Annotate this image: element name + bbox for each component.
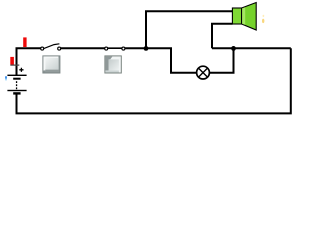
battery B1: plate 4 short thick (-) — [13, 92, 20, 94]
lamp L1 cross — [199, 68, 208, 77]
switch S1 (open) lever — [44, 44, 60, 49]
push button 2 (pressed, for S2) — [104, 55, 121, 73]
switch S2 left contact — [105, 47, 108, 50]
switch S1 left contact — [41, 47, 44, 50]
switch S1 right contact — [58, 47, 61, 50]
wire: lamp output right and up to junction B — [210, 48, 234, 72]
speaker horn highlight — [242, 7, 245, 25]
wire: speaker bottom terminal left and down to node row — [212, 24, 233, 49]
red marker 1 (on wire near corner) — [23, 37, 26, 47]
battery B1: plate 2 short thick (-) — [13, 78, 20, 80]
battery B1: plate 1 long (+) — [7, 75, 26, 76]
battery plus sign — [19, 68, 23, 72]
red marker 2 (beside battery) — [10, 57, 14, 65]
wire: junction A up and top rail to speaker top terminal — [146, 11, 233, 48]
wire: from x212 through junction B to right rail — [212, 47, 291, 49]
speaker LS1 horn cone — [242, 3, 257, 31]
battery B1: plate 3 long (+) — [7, 90, 26, 91]
wire: right rail down, bottom rail, battery negative return — [17, 48, 291, 113]
lamp L1 circle — [197, 66, 210, 79]
sound note mark — [263, 15, 265, 17]
wire: from switch S2 to junction A and corner down to lamp row — [125, 48, 196, 72]
dark tick under red marker 2 — [10, 65, 19, 66]
blue droplet mark — [5, 76, 7, 78]
switch S2 (closed) bar — [106, 47, 123, 49]
switch S2 right contact — [122, 47, 125, 50]
wire: battery positive up and right to switch S1 — [17, 48, 41, 75]
speaker LS1 driver body — [232, 8, 241, 24]
wire: between switch S1 and switch S2 — [61, 47, 105, 49]
node B junction dot — [231, 46, 236, 51]
push button 1 (raised, for S1) — [42, 55, 60, 73]
node A junction dot — [144, 46, 149, 51]
battery B1: dotted cell line — [16, 81, 17, 83]
